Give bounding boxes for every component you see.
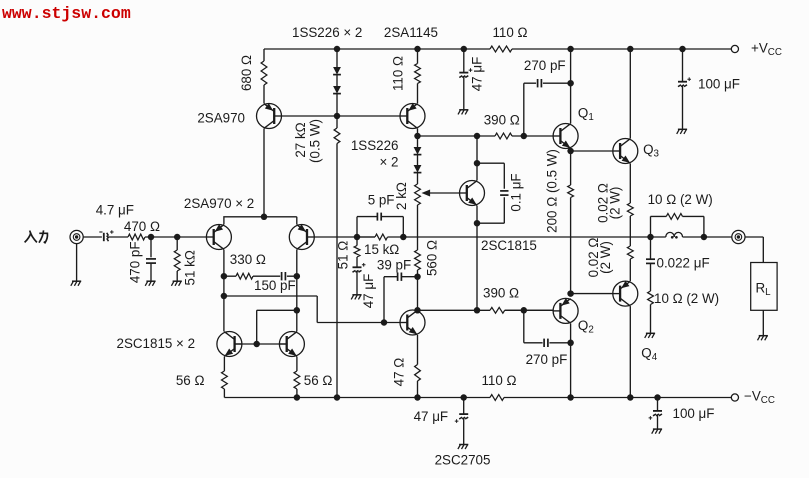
wire C16 to ground [657, 415, 659, 429]
wire node B line [418, 135, 554, 137]
wire R2 drop [176, 237, 178, 250]
resistor R6 390 ohm (upper) [495, 133, 512, 139]
junction left collector / R10 [221, 273, 228, 280]
junction Q1 collector / C5 [567, 80, 574, 87]
wire C3 to ground [463, 77, 465, 110]
junction node B / bias transistor collector [474, 133, 481, 140]
resistor R2 51k [174, 250, 180, 271]
svg-text:2SC1815: 2SC1815 [481, 238, 537, 253]
wire node B to D3 [417, 136, 419, 147]
wire D2 to bias node [336, 94, 338, 116]
junction Q2 collector / C8 [567, 340, 574, 347]
junction VAS base node [381, 319, 388, 326]
junction -Vcc / R4 drop [334, 394, 341, 401]
svg-text:27 kΩ: 27 kΩ [293, 122, 308, 157]
wire D3-D4 [417, 155, 419, 165]
svg-text:110 Ω: 110 Ω [391, 56, 406, 91]
transistor Q8 bias 2SC1815 [460, 181, 485, 206]
wire mirror base link [234, 343, 288, 345]
wire RL to ground [762, 310, 764, 335]
wire D1-D2 [336, 75, 338, 86]
terminal -Vcc [731, 394, 738, 401]
svg-text:390 Ω: 390 Ω [484, 112, 520, 127]
junction +Vcc / R5 [414, 46, 421, 53]
wire R14 to C12 [356, 257, 358, 267]
capacitor C15 100uF (+Vcc) [678, 77, 691, 86]
resistor R10 330 ohm [236, 273, 253, 279]
transistor Q9 diff left 2SA970 [206, 224, 231, 249]
junction node B / diode string [414, 133, 421, 140]
wire -Vcc rail [224, 397, 731, 399]
wire C12 to ground [356, 271, 358, 294]
wire R7 to VAS collector [417, 270, 419, 310]
junction +Vcc / C3 [461, 46, 468, 53]
wire +Vcc to R3 [263, 49, 265, 61]
wire D1 string top [336, 49, 338, 67]
wire C15 drop [682, 49, 684, 82]
wire R11 to rail corner [223, 389, 225, 398]
capacitor C3 47uF [459, 68, 472, 77]
svg-text:+VCC: +VCC [751, 41, 782, 59]
wire node D to Q3 base [571, 150, 613, 152]
label input (nyuuryoku, drawn) [25, 230, 48, 242]
svg-text:270 pF: 270 pF [526, 352, 568, 367]
wire C15 to ground [682, 86, 684, 129]
svg-text:RL: RL [756, 281, 772, 299]
diode D4 1SS226 [414, 165, 422, 173]
wire VAS emitter to R8 [417, 335, 419, 365]
wire +Vcc to R5 [417, 49, 419, 64]
wire C7 branch [477, 163, 504, 223]
svg-text:2SC1815 × 2: 2SC1815 × 2 [117, 336, 196, 351]
transistor Q6 2SA1145 [400, 103, 425, 128]
wire Q1 emitter to node D [570, 149, 572, 152]
potentiometer VR1 2k [415, 184, 421, 205]
wire Q2 collector [570, 323, 572, 397]
wire R2 to ground [176, 271, 178, 281]
wire diff left collector column [223, 250, 225, 332]
svg-text:2SC2705: 2SC2705 [435, 453, 491, 468]
junction output node [647, 234, 654, 241]
wire Q1 collector [570, 49, 572, 124]
diode D1 1SS226 [333, 67, 341, 75]
svg-text:−VCC: −VCC [744, 389, 775, 407]
wire C1 to R1 [108, 236, 128, 238]
capacitor C8 270pF (lower) [544, 339, 548, 347]
resistor R12 56 ohm (right) [294, 371, 300, 389]
capacitor C9 150pF [282, 272, 286, 280]
wire C16 drop [657, 398, 659, 411]
ground (input connector) [71, 281, 81, 286]
svg-text:330 Ω: 330 Ω [230, 252, 266, 267]
svg-text:www.stjsw.com: www.stjsw.com [2, 4, 131, 23]
capacitor C2 470pF [146, 259, 156, 263]
wire mirror base to right collector [257, 310, 297, 344]
junction +Vcc / C15 [679, 46, 686, 53]
transistor Q5 2SA970 (current source) [257, 103, 282, 128]
transistor Q11 mirror left 2SC1815 [217, 332, 242, 357]
resistor R1 470 ohm [128, 234, 145, 240]
svg-text:5 pF: 5 pF [368, 193, 395, 208]
wire diff right collector column [296, 250, 298, 332]
wire zobel mid [650, 263, 652, 291]
resistor R4 27k 0.5W [334, 128, 340, 144]
svg-text:270 pF: 270 pF [524, 58, 566, 73]
diode D3 1SS226 [414, 147, 422, 155]
input connector J1 [70, 230, 83, 243]
svg-text:Q2: Q2 [578, 318, 594, 336]
svg-text:2SA1145: 2SA1145 [384, 25, 438, 40]
wire R19 to Q4 emitter [629, 259, 631, 281]
ground (C14) [458, 445, 468, 450]
resistor R14 51 ohm [354, 246, 360, 258]
svg-text:2SA970 × 2: 2SA970 × 2 [184, 196, 254, 211]
svg-text:2SA970: 2SA970 [197, 111, 245, 126]
wire node E to Q4 base [571, 293, 613, 295]
junction +Vcc / Q3 collector [627, 46, 634, 53]
wire output connector to RL [745, 237, 763, 263]
svg-text:56 Ω: 56 Ω [176, 373, 205, 388]
ground (C2) [145, 281, 155, 286]
wire zobel to ground [650, 305, 652, 333]
wire C6 branch [384, 277, 418, 323]
ground (R2) [171, 281, 181, 286]
junction output / zobel [701, 234, 708, 241]
svg-text:(0.5 W): (0.5 W) [308, 119, 323, 163]
wire mirror left emitter [223, 357, 225, 372]
wire Q3 emitter to R18 [629, 164, 631, 204]
wire Q2 base line [505, 309, 553, 311]
wire feedback bus [357, 236, 375, 238]
capacitor C13 0.022uF [646, 259, 655, 263]
wire Q3 collector [629, 49, 631, 139]
wire mirror right emitter [296, 357, 298, 372]
junction input node / R2 [174, 234, 181, 241]
svg-text:1SS226 × 2: 1SS226 × 2 [292, 25, 362, 40]
junction Q2 emitter node E [567, 290, 574, 297]
wire R10-C9 series [224, 275, 297, 277]
svg-text:150 pF: 150 pF [254, 278, 296, 293]
ground (RL) [758, 336, 768, 341]
resistor R17 200 ohm 0.5W [568, 185, 574, 198]
svg-text:2 kΩ: 2 kΩ [394, 182, 409, 210]
wire bias emitter drop [476, 206, 478, 311]
transistor Q2 driver [553, 298, 578, 323]
svg-text:51 kΩ: 51 kΩ [183, 250, 198, 285]
svg-text:(2 W): (2 W) [608, 187, 623, 220]
wire R17 to Q2 emitter [570, 198, 572, 294]
wire C8 branch [524, 310, 571, 343]
wire VAS base line [317, 322, 400, 324]
junction bias emitter / C7 [474, 220, 481, 227]
junction node C / C8 [521, 307, 528, 314]
terminal +Vcc [731, 45, 738, 52]
wire C10 parallel branch [357, 217, 403, 237]
svg-text:110 Ω: 110 Ω [481, 373, 516, 388]
svg-text:10 Ω (2 W): 10 Ω (2 W) [648, 192, 713, 207]
resistor R11 56 ohm (left) [222, 371, 228, 389]
transistor Q12 mirror right 2SC1815 [279, 332, 304, 357]
inductor L1 [666, 232, 683, 238]
capacitor C10 5pF [377, 213, 381, 221]
ground (C15) [677, 129, 687, 134]
wire diff emitters top [224, 217, 297, 225]
junction VAS collector node C [414, 307, 421, 314]
capacitor C6 39pF [398, 273, 402, 281]
junction node D (Q1 emitter) [567, 148, 574, 155]
svg-text:39 pF: 39 pF [377, 258, 411, 273]
junction +Vcc / Q1 collector [567, 46, 574, 53]
junction feedback node / R13 [354, 234, 361, 241]
wire +Vcc rail [264, 48, 731, 50]
wire R12 to rail [296, 389, 298, 398]
junction feedback / C11 [400, 234, 407, 241]
diode D2 1SS226 [333, 86, 341, 94]
svg-text:10 Ω (2 W): 10 Ω (2 W) [654, 291, 719, 306]
wire output bus [388, 236, 732, 238]
junction -Vcc / R12 [294, 394, 301, 401]
svg-text:56 Ω: 56 Ω [304, 373, 333, 388]
junction node B / C5 [521, 133, 528, 140]
svg-text:× 2: × 2 [380, 155, 399, 170]
junction diff emitter / Q5 collector [261, 214, 268, 221]
transistor Q4 output [613, 281, 638, 306]
junction left collector / feed line [221, 293, 228, 300]
wire R18 to R19 (crosses bus) [629, 216, 631, 246]
wire C2 to ground [150, 263, 152, 281]
wire D4 to VR1 [417, 173, 419, 184]
svg-text:560 Ω: 560 Ω [425, 240, 440, 276]
resistor R8 47 ohm [415, 365, 421, 382]
ground (C12) [351, 295, 361, 300]
svg-text:(2 W): (2 W) [598, 241, 613, 274]
junction node C / bias emitter [474, 307, 481, 314]
wire 10ohm parallel branch [651, 216, 704, 237]
load resistor RL box [751, 263, 777, 311]
capacitor C12 47uF (feedback) [353, 263, 366, 272]
svg-text:Q3: Q3 [643, 142, 659, 160]
wire Q5 base to bias node [282, 115, 401, 117]
svg-text:1SS226: 1SS226 [351, 138, 399, 153]
wire R14 drop [356, 237, 358, 246]
svg-text:Q1: Q1 [578, 106, 594, 124]
ground (C3) [458, 110, 468, 115]
resistor R13 15k [375, 234, 388, 240]
svg-text:51 Ω: 51 Ω [336, 241, 351, 270]
wire C5 branch [524, 83, 571, 136]
potentiometer VR1 wiper arrow [422, 190, 460, 197]
resistor R16 10 ohm 2W (zobel) [648, 291, 654, 305]
svg-text:15 kΩ: 15 kΩ [364, 242, 399, 257]
svg-text:390 Ω: 390 Ω [483, 286, 519, 301]
svg-text:470 Ω: 470 Ω [124, 219, 160, 234]
svg-text:Q4: Q4 [641, 345, 657, 363]
resistor R3 680 ohm [261, 61, 267, 85]
junction -Vcc / R8 drop [414, 394, 421, 401]
junction input node / C2 [148, 234, 155, 241]
svg-text:47 μF: 47 μF [414, 409, 449, 424]
wire C2 drop [150, 237, 152, 257]
junction +Vcc / D1 string [334, 46, 341, 53]
wire Q4 collector [629, 306, 631, 397]
transistor Q3 output [613, 139, 638, 164]
output connector J2 [732, 230, 745, 243]
wire zobel top [650, 237, 652, 259]
capacitor C7 0.1uF [500, 191, 508, 195]
wire diff collector to VAS base (feed) [224, 296, 317, 323]
wire VR1 to R7 [417, 205, 419, 250]
svg-text:47 μF: 47 μF [361, 274, 376, 309]
wire C14 drop [463, 398, 465, 415]
svg-text:110 Ω: 110 Ω [492, 25, 527, 40]
junction C6 tap [414, 273, 421, 280]
svg-text:100 μF: 100 μF [698, 77, 740, 92]
capacitor C5 270pF (upper) [538, 79, 542, 87]
svg-text:4.7 μF: 4.7 μF [96, 203, 134, 218]
transistor Q7 VAS 2SC2705 [400, 310, 425, 335]
wire R4 to -Vcc rail (long drop) [336, 144, 338, 398]
junction -Vcc / C14 [460, 394, 467, 401]
svg-text:0.1 μF: 0.1 μF [509, 173, 524, 211]
resistor 110 ohm (-Vcc rail) [490, 395, 504, 401]
wire Q6 collector to node B [417, 129, 419, 137]
svg-text:47 μF: 47 μF [470, 57, 485, 92]
junction bias node A [334, 113, 341, 120]
capacitor C16 100uF (-Vcc) [649, 411, 662, 420]
wire bias collector drop [476, 136, 478, 181]
transistor Q1 driver 2SC... [553, 124, 578, 149]
resistor 110 ohm (+Vcc rail) [490, 46, 512, 52]
resistor R5 110 ohm [415, 64, 421, 84]
capacitor C1 4.7uF [99, 230, 113, 241]
junction -Vcc / Q2 collector [567, 394, 574, 401]
resistor R18 0.02 ohm 2W [627, 203, 633, 216]
wire R5 to Q6 emitter [417, 84, 419, 104]
junction mirror bases [253, 341, 260, 348]
wire node D to R17 [570, 151, 572, 185]
wire node C line [418, 309, 553, 311]
wire R3 to Q5 emitter [263, 85, 265, 104]
resistor R15 10 ohm 2W [666, 214, 682, 220]
svg-text:680 Ω: 680 Ω [239, 55, 254, 91]
ground (zobel) [645, 333, 655, 338]
junction bias collector / C7 [474, 160, 481, 167]
wire +Vcc to C3 [463, 49, 465, 73]
resistor R19 0.02 ohm 2W [627, 246, 633, 259]
junction right collector / C9 [294, 273, 301, 280]
svg-text:200 Ω (0.5 W): 200 Ω (0.5 W) [544, 149, 559, 233]
wire bias node down to R4 [336, 116, 338, 128]
wire Q5 collector to diff emitters [263, 129, 265, 217]
wire feedback line from Q10 base [314, 236, 375, 238]
wire input connector to C1 [83, 236, 102, 238]
svg-text:470 pF: 470 pF [128, 241, 143, 283]
capacitor C14 47uF (bottom) [455, 414, 468, 423]
wire input connector ground drop [76, 244, 78, 281]
ground (C16) [652, 429, 662, 434]
svg-text:100 μF: 100 μF [673, 406, 715, 421]
transistor Q10 diff right 2SA970 [289, 224, 314, 249]
wire R8 to -Vcc rail [417, 381, 419, 398]
svg-text:47 Ω: 47 Ω [392, 358, 407, 387]
junction right collector / mirror line [294, 307, 301, 314]
wire C14 to ground [463, 418, 465, 444]
wire R1 to diff pair base [145, 236, 206, 238]
resistor R9 390 ohm (lower) [490, 307, 505, 313]
junction -Vcc / Q4 collector [627, 394, 634, 401]
junction -Vcc / C16 [654, 394, 661, 401]
resistor R7 560 ohm [415, 250, 421, 270]
svg-text:0.022 μF: 0.022 μF [657, 256, 710, 271]
